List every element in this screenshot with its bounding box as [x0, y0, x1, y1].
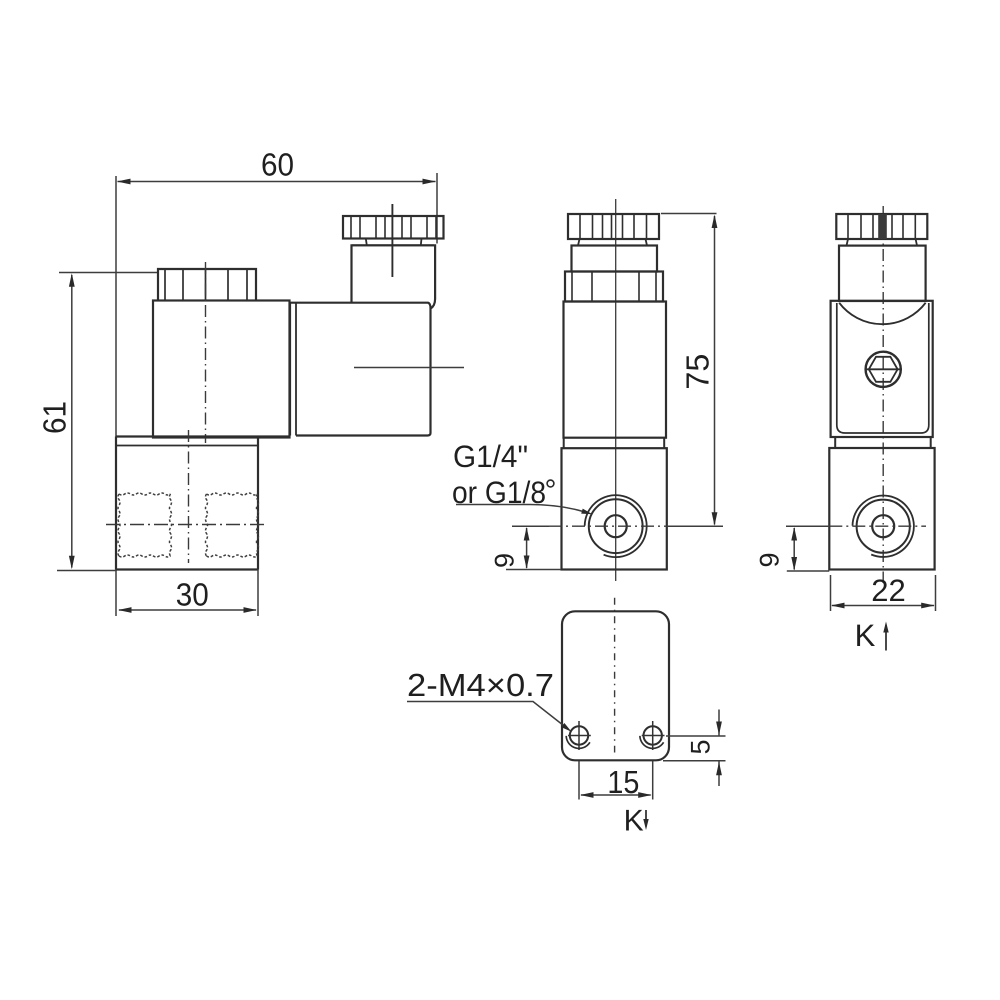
svg-text:2-M4×0.7: 2-M4×0.7	[407, 667, 554, 703]
svg-text:15: 15	[607, 764, 639, 800]
svg-text:22: 22	[871, 573, 906, 608]
svg-text:60: 60	[261, 147, 294, 183]
svg-text:5: 5	[686, 740, 716, 755]
svg-text:K: K	[624, 805, 644, 838]
svg-text:9: 9	[490, 553, 520, 568]
svg-text:G1/4": G1/4"	[453, 439, 528, 474]
svg-text:30: 30	[176, 577, 209, 613]
svg-text:75: 75	[680, 354, 716, 390]
svg-text:9: 9	[755, 553, 785, 568]
svg-text:61: 61	[37, 401, 73, 434]
svg-text:K: K	[855, 618, 876, 653]
